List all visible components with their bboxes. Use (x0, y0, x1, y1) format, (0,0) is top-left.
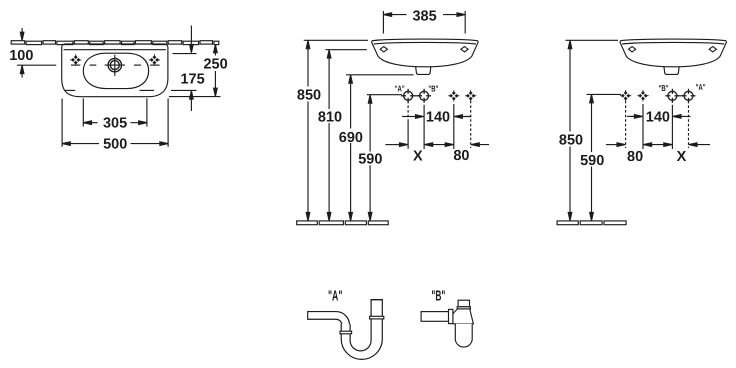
svg-text:250: 250 (203, 57, 227, 73)
svg-text:690: 690 (339, 130, 363, 146)
svg-text:850: 850 (297, 87, 321, 103)
svg-text:500: 500 (103, 137, 127, 153)
svg-text:100: 100 (9, 48, 33, 64)
svg-text:"A": "A" (328, 288, 343, 304)
svg-text:175: 175 (180, 71, 204, 87)
svg-text:"B": "B" (659, 83, 669, 93)
svg-text:"A": "A" (395, 83, 405, 93)
svg-text:X: X (413, 148, 423, 164)
svg-text:80: 80 (453, 148, 469, 164)
svg-text:590: 590 (580, 153, 604, 169)
svg-text:590: 590 (358, 152, 382, 168)
svg-text:385: 385 (412, 9, 436, 25)
svg-text:"B": "B" (428, 83, 438, 93)
svg-text:"A": "A" (696, 82, 706, 92)
svg-text:X: X (677, 149, 687, 165)
svg-text:810: 810 (318, 109, 342, 125)
svg-text:80: 80 (627, 149, 643, 165)
svg-text:140: 140 (646, 109, 670, 125)
svg-text:"B": "B" (431, 288, 445, 304)
svg-text:140: 140 (426, 110, 450, 126)
svg-text:305: 305 (103, 116, 127, 132)
svg-text:850: 850 (559, 133, 583, 149)
